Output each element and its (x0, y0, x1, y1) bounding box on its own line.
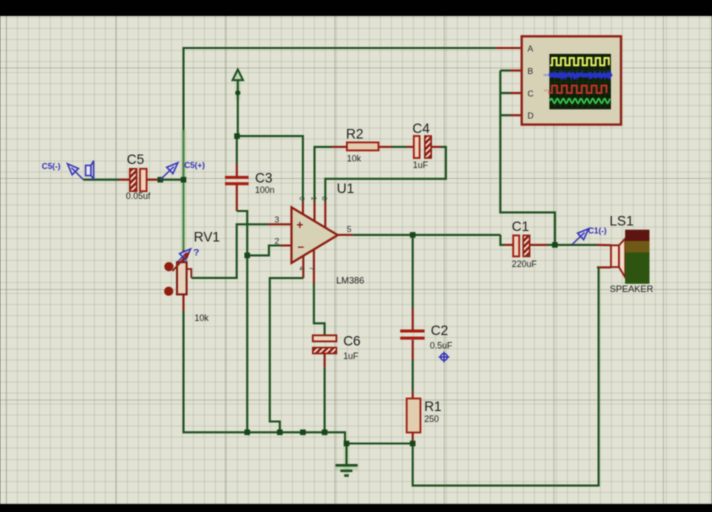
svg-text:7: 7 (308, 267, 315, 271)
svg-text:10k: 10k (195, 313, 210, 323)
svg-text:250: 250 (424, 414, 439, 424)
svg-text:1uF: 1uF (343, 351, 359, 361)
svg-text:SPEAKER: SPEAKER (610, 284, 654, 294)
svg-text:R1: R1 (424, 399, 441, 414)
svg-text:R2: R2 (346, 127, 363, 142)
svg-text:A: A (528, 43, 534, 53)
svg-text:1uF: 1uF (413, 160, 429, 170)
svg-text:C2: C2 (431, 323, 448, 338)
svg-text:+: + (297, 220, 304, 232)
svg-text:0.05uf: 0.05uf (126, 191, 151, 201)
svg-text:C5(-): C5(-) (42, 162, 61, 171)
svg-text:1: 1 (310, 197, 317, 201)
svg-text:D: D (528, 111, 534, 121)
svg-text:LM386: LM386 (336, 276, 364, 286)
svg-text:100n: 100n (255, 185, 275, 195)
svg-text:C: C (528, 88, 534, 98)
svg-text:0.5uF: 0.5uF (430, 340, 453, 350)
svg-text:C5(+): C5(+) (184, 161, 205, 170)
svg-text:220uF: 220uF (512, 259, 538, 269)
svg-text:U1: U1 (337, 181, 354, 196)
svg-text:C4: C4 (412, 121, 430, 136)
svg-text:6: 6 (298, 197, 305, 201)
svg-text:C6: C6 (343, 333, 360, 348)
svg-text:4: 4 (298, 267, 305, 271)
svg-text:C5: C5 (127, 152, 144, 167)
svg-text:?: ? (194, 248, 200, 259)
svg-text:RV1: RV1 (194, 230, 220, 245)
svg-text:2: 2 (275, 236, 280, 246)
svg-text:B: B (528, 66, 534, 76)
svg-text:10k: 10k (347, 154, 362, 164)
svg-text:3: 3 (275, 214, 280, 224)
svg-text:C3: C3 (255, 171, 272, 186)
svg-text:5: 5 (347, 224, 352, 234)
svg-text:8: 8 (320, 197, 327, 201)
svg-text:−: − (298, 242, 305, 254)
svg-text:C1: C1 (512, 219, 529, 234)
svg-text:C1(-): C1(-) (588, 227, 607, 236)
svg-text:LS1: LS1 (610, 213, 634, 228)
